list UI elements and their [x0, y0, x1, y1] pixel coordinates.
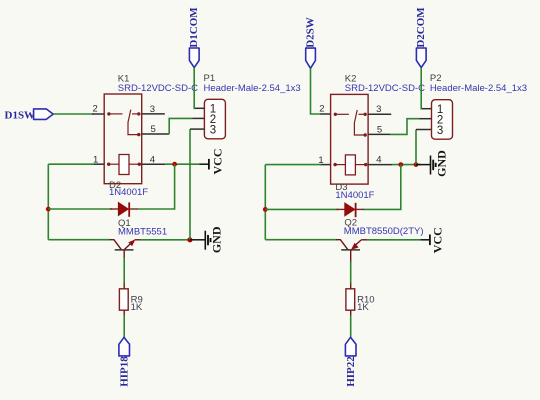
wire Q1 emitter to GND junction	[141, 239, 191, 241]
svg-text:HIP22: HIP22	[345, 356, 357, 387]
port flag D2COM	[415, 7, 427, 68]
port flag D2SW	[305, 17, 317, 68]
port flag HIP22	[345, 337, 357, 386]
resistor R9	[119, 289, 142, 313]
wire K2 pin1 to right rail	[265, 164, 321, 166]
wire Q2 base down to R10	[350, 262, 352, 285]
wire Q2 emitter to VCC	[367, 239, 421, 241]
pin 1 stub of K1	[93, 155, 104, 166]
port flag HIP18	[118, 337, 130, 386]
wire D2COM to P2 pin1	[421, 68, 422, 109]
junction pin4 row to diode	[398, 162, 403, 167]
svg-text:5: 5	[151, 124, 156, 135]
transistor Q2 labels	[344, 217, 424, 237]
relay K1 switch contacts	[107, 110, 140, 137]
right rail wire down	[264, 165, 266, 240]
junction pin4 row to P2 pin3	[414, 162, 419, 167]
wire K1 pin4 to VCC	[165, 163, 199, 165]
junction on right rail (diode row)	[263, 207, 268, 212]
junction at GND row	[187, 237, 192, 242]
svg-text:3: 3	[437, 125, 443, 137]
pin 3 stub of K2 (unconnected)	[368, 104, 391, 115]
transistor Q1 (NPN)	[110, 239, 142, 259]
pin 2 stub of K2	[319, 104, 330, 115]
svg-text:2: 2	[93, 104, 98, 115]
pin 4 stub of K2	[368, 155, 392, 166]
svg-text:SRD-12VDC-SD-C: SRD-12VDC-SD-C	[345, 83, 425, 94]
pin 5 stub of K1	[142, 124, 170, 135]
wire pin4 junction down to diode cathode	[363, 165, 401, 210]
wire K1 pin1 to left rail	[48, 163, 94, 165]
svg-text:SRD-12VDC-SD-C: SRD-12VDC-SD-C	[118, 83, 198, 94]
svg-text:MMBT8550D(2TY): MMBT8550D(2TY)	[344, 226, 424, 237]
relay K2 labels	[345, 74, 425, 95]
svg-text:D1SW: D1SW	[5, 110, 36, 122]
relay K1 coil	[107, 155, 141, 175]
pin 2 stub of K1	[92, 104, 104, 115]
svg-text:4: 4	[150, 154, 155, 165]
svg-text:3: 3	[150, 104, 155, 115]
port flag D1COM	[188, 7, 200, 68]
header P2	[416, 73, 527, 139]
svg-text:5: 5	[377, 124, 382, 135]
ground symbol GND (left)	[190, 226, 224, 253]
wire pin4 junction down to diode cathode	[137, 164, 175, 209]
wire P2 pin3 down to pin4 row	[415, 130, 417, 165]
wire D1SW to K1 pin 2	[53, 113, 93, 115]
resistor R10	[346, 289, 375, 313]
wire K2 pin4 to GND	[392, 164, 421, 166]
diode D3	[335, 182, 374, 217]
junction on left rail (diode row)	[46, 207, 51, 212]
svg-text:Header-Male-2.54_1x3: Header-Male-2.54_1x3	[204, 83, 301, 94]
wire P1 pin3 down to GND junction	[189, 129, 191, 240]
diode D2	[109, 180, 148, 217]
power flag VCC (right)	[421, 227, 445, 253]
svg-text:D2SW: D2SW	[305, 17, 317, 48]
relay K1 labels	[118, 73, 198, 94]
wire K2 pin5 to P2 pin2	[390, 119, 420, 135]
pin 1 stub of K2	[318, 155, 330, 166]
svg-text:D2COM: D2COM	[415, 7, 427, 48]
wire right rail to Q2 collector	[265, 239, 337, 241]
wire right rail to diode anode	[265, 208, 338, 210]
wire D1COM to P1 pin1	[194, 68, 195, 109]
relay K2 switch contacts	[334, 110, 367, 137]
svg-text:1N4001F: 1N4001F	[109, 187, 148, 198]
wire K1 pin5 to P1 pin2	[169, 118, 192, 134]
ground symbol GND (right)	[416, 150, 448, 177]
svg-text:Header-Male-2.54_1x3: Header-Male-2.54_1x3	[430, 83, 527, 94]
svg-text:3: 3	[376, 104, 381, 115]
svg-text:1K: 1K	[357, 302, 369, 313]
wire R9 to HIP18	[123, 310, 125, 316]
wire D2SW to K2 pin 2	[311, 68, 322, 114]
transistor Q2 (PNP)	[336, 240, 368, 263]
left rail wire down	[47, 164, 49, 240]
pin 5 stub of K2	[368, 124, 390, 135]
junction at pin4 row	[172, 162, 177, 167]
svg-text:VCC: VCC	[431, 227, 445, 253]
wire left rail to Q1 collector	[48, 239, 110, 241]
wire Q1 base down to R9	[123, 258, 125, 285]
svg-text:VCC: VCC	[210, 149, 224, 175]
svg-text:1K: 1K	[131, 302, 143, 313]
relay K2 body	[331, 94, 369, 184]
relay K2 coil	[333, 155, 367, 175]
svg-text:4: 4	[376, 155, 381, 166]
svg-text:D1COM: D1COM	[188, 7, 200, 48]
transistor Q1 labels	[118, 218, 167, 237]
relay K1 body	[104, 94, 142, 184]
wire left rail to diode anode	[48, 208, 112, 210]
wire R10 to HIP22	[350, 310, 352, 316]
svg-text:HIP18: HIP18	[118, 356, 130, 387]
header P1	[190, 73, 301, 139]
svg-text:GND: GND	[434, 150, 448, 177]
svg-text:1N4001F: 1N4001F	[335, 190, 374, 201]
svg-text:GND: GND	[210, 226, 224, 253]
port flag D1SW	[5, 109, 54, 122]
svg-text:3: 3	[210, 124, 216, 136]
svg-text:2: 2	[319, 104, 324, 115]
pin 3 stub of K1 (unconnected)	[142, 104, 165, 115]
power flag VCC (left)	[200, 149, 225, 175]
pin 4 stub of K1	[142, 154, 166, 165]
svg-text:MMBT5551: MMBT5551	[118, 226, 167, 237]
